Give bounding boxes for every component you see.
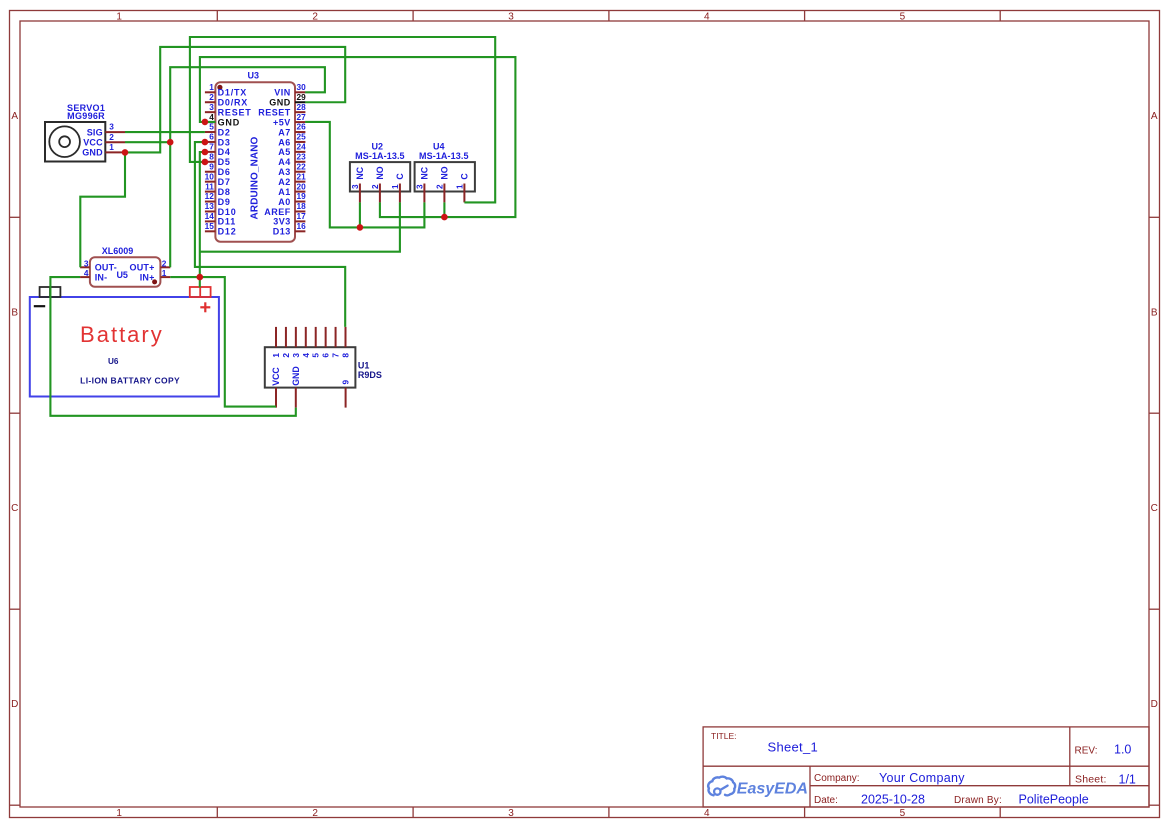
svg-text:6: 6 (209, 132, 214, 142)
U5 pin 1 IN+ (140, 268, 171, 282)
relay U2 MS-1A-13.5 (350, 141, 410, 191)
wire to U2 C (200, 202, 400, 251)
U1 pin VCC (271, 367, 281, 408)
svg-text:A: A (1151, 111, 1158, 122)
U3 pin 24 A5 (278, 142, 306, 158)
SERVO1 pin 1 GND (82, 142, 125, 158)
svg-text:10: 10 (205, 171, 215, 181)
svg-text:1: 1 (109, 142, 114, 152)
svg-text:1: 1 (271, 353, 281, 358)
svg-text:2: 2 (371, 184, 380, 189)
svg-text:B: B (1151, 307, 1158, 318)
svg-text:4: 4 (301, 353, 311, 358)
svg-text:13: 13 (205, 201, 215, 211)
U5 origin dot (152, 279, 157, 284)
svg-text:5: 5 (900, 808, 906, 819)
U3 pin 7 D4 (205, 142, 231, 158)
U3 pin 10 D7 (205, 171, 231, 187)
svg-text:1: 1 (456, 184, 465, 189)
U3 pin 25 A6 (278, 132, 306, 148)
svg-text:Your Company: Your Company (879, 771, 965, 785)
svg-text:2: 2 (281, 353, 291, 358)
junction node (125,152.4) (122, 149, 129, 156)
svg-text:D10: D10 (218, 207, 237, 217)
battery positive terminal (190, 287, 211, 312)
junction node (170.2,142.2) (167, 139, 174, 146)
svg-text:A6: A6 (278, 137, 291, 147)
U3 pin 27 +5V (273, 112, 306, 128)
U1 pin 4 (301, 327, 311, 358)
svg-text:26: 26 (297, 122, 307, 132)
svg-text:1/1: 1/1 (1119, 772, 1136, 786)
U3 pin 4 GND (205, 112, 240, 128)
svg-text:1: 1 (116, 808, 122, 819)
U3 pin 9 D6 (205, 161, 231, 177)
junction node (204.9,142.05) (202, 139, 209, 146)
SERVO1 pin 2 VCC (83, 132, 125, 148)
svg-text:D11: D11 (218, 217, 236, 227)
svg-text:9: 9 (209, 161, 214, 171)
svg-text:Drawn By:: Drawn By: (954, 795, 1002, 806)
svg-text:A4: A4 (278, 157, 291, 167)
U3 pin 5 D2 (205, 122, 231, 138)
U3 pin 22 A3 (278, 161, 306, 177)
svg-text:14: 14 (205, 211, 215, 221)
svg-text:C: C (11, 503, 18, 514)
svg-text:D6: D6 (218, 167, 231, 177)
U1 pin 9 (341, 380, 351, 408)
svg-text:D: D (11, 699, 18, 710)
U3 pin 16 D13 (273, 221, 306, 237)
U3 pin 12 D9 (205, 191, 231, 207)
svg-text:24: 24 (297, 142, 307, 152)
receiver U1 R9DS (265, 347, 382, 387)
svg-text:Battary: Battary (80, 322, 164, 347)
svg-text:25: 25 (297, 132, 307, 142)
svg-text:3: 3 (351, 184, 360, 189)
svg-text:3: 3 (84, 258, 89, 268)
svg-text:NO: NO (375, 166, 385, 179)
svg-text:GND: GND (291, 366, 301, 386)
svg-text:3: 3 (508, 808, 514, 819)
U1 pin GND (291, 366, 301, 407)
svg-text:D5: D5 (218, 157, 231, 167)
svg-text:8: 8 (209, 152, 214, 162)
wire OUT+ / VIN net (170, 67, 325, 267)
svg-text:19: 19 (297, 191, 307, 201)
svg-text:2: 2 (436, 184, 445, 189)
junction node (204.9,152.0) (202, 149, 209, 156)
svg-text:7: 7 (331, 353, 341, 358)
svg-text:A: A (11, 111, 18, 122)
U3 pin 14 D11 (205, 211, 236, 227)
svg-text:VCC: VCC (83, 138, 103, 148)
svg-text:Company:: Company: (814, 773, 860, 784)
wire branch U4 NO (443, 202, 445, 217)
junction node (359.9,227.4) (357, 224, 364, 231)
svg-text:D3: D3 (218, 137, 231, 147)
U4 pin 2 NO (436, 166, 450, 202)
svg-text:C: C (1151, 503, 1158, 514)
svg-text:5: 5 (900, 11, 906, 22)
U5 pin 2 OUT+ (130, 258, 171, 272)
svg-text:C: C (460, 173, 470, 180)
svg-text:U3: U3 (248, 71, 260, 81)
svg-text:12: 12 (205, 191, 215, 201)
svg-text:D13: D13 (273, 227, 291, 237)
svg-text:GND: GND (269, 98, 291, 108)
svg-text:MS-1A-13.5: MS-1A-13.5 (355, 151, 405, 161)
svg-text:3: 3 (508, 11, 514, 22)
wire servo VCC tap (125, 141, 170, 143)
U3 pin 1 D1/TX (205, 82, 247, 98)
U3 pin 18 AREF (264, 201, 306, 217)
svg-text:D0/RX: D0/RX (218, 98, 249, 108)
svg-text:VCC: VCC (271, 367, 281, 386)
U1 pin 8 (341, 327, 351, 358)
boost converter U5 XL6009 (90, 246, 160, 287)
svg-text:R9DS: R9DS (358, 370, 382, 380)
svg-text:2: 2 (109, 132, 114, 142)
U4 pin 1 C (456, 173, 470, 203)
U3 pin 11 D8 (205, 181, 231, 197)
svg-text:GND: GND (218, 117, 240, 127)
wire GND4 to relay NO net (200, 57, 516, 217)
wire battery+ stub (199, 277, 201, 287)
svg-text:4: 4 (704, 11, 710, 22)
svg-text:EasyEDA: EasyEDA (737, 781, 808, 798)
svg-text:MS-1A-13.5: MS-1A-13.5 (419, 151, 469, 161)
svg-text:D: D (1151, 699, 1158, 710)
svg-text:OUT+: OUT+ (130, 263, 155, 273)
wire servo SIG to D2 (125, 131, 205, 133)
wire D4 vertical (200, 152, 205, 277)
svg-text:3V3: 3V3 (273, 217, 291, 227)
svg-text:11: 11 (205, 181, 214, 191)
SERVO1 pin 3 SIG (87, 122, 125, 138)
svg-text:U4: U4 (433, 141, 445, 151)
junction node (199.8,277.1) (197, 274, 204, 281)
wire D3 to U1 pin8 (195, 142, 345, 327)
svg-text:A3: A3 (278, 167, 291, 177)
U1 pin 5 (311, 327, 321, 358)
U5 pin 3 OUT- (80, 258, 117, 272)
U3 pin 23 A4 (278, 152, 306, 168)
U1 pin 3 (291, 327, 301, 358)
wire +5V to relay NC net (305, 122, 424, 227)
U3 pin 2 D0/RX (205, 92, 248, 108)
svg-text:15: 15 (205, 221, 215, 231)
svg-text:1: 1 (116, 11, 122, 22)
wire branch U2 NC (359, 202, 361, 227)
U2 pin 2 NO (371, 166, 385, 202)
U1 pin 6 (321, 327, 331, 358)
U3 pin 21 A2 (278, 171, 306, 187)
svg-text:B: B (11, 307, 18, 318)
U3 pin 17 3V3 (273, 211, 306, 227)
svg-text:2: 2 (209, 92, 214, 102)
U2 pin 1 C (391, 173, 405, 203)
svg-text:2: 2 (312, 808, 318, 819)
Arduino Nano U3 (215, 71, 295, 242)
battery U6 LI-ION (30, 297, 219, 397)
svg-text:NC: NC (355, 166, 365, 179)
svg-text:4: 4 (704, 808, 710, 819)
svg-text:3: 3 (291, 353, 301, 358)
svg-text:20: 20 (297, 181, 307, 191)
svg-text:1: 1 (162, 268, 167, 278)
wire D5 to U4 C (190, 37, 495, 202)
svg-text:22: 22 (297, 161, 307, 171)
U1 pin 1 (271, 327, 281, 358)
svg-text:2: 2 (162, 258, 167, 268)
svg-text:28: 28 (297, 102, 307, 112)
svg-text:C: C (395, 173, 405, 180)
svg-text:A7: A7 (278, 127, 291, 137)
U3 pin 20 A1 (278, 181, 306, 197)
svg-text:3: 3 (416, 184, 425, 189)
svg-text:A1: A1 (278, 187, 291, 197)
svg-text:RESET: RESET (258, 107, 291, 117)
junction node (204.9,161.95) (202, 159, 209, 166)
svg-text:OUT-: OUT- (95, 263, 117, 273)
relay U4 MS-1A-13.5 (415, 141, 475, 191)
svg-text:7: 7 (209, 142, 214, 152)
U2 pin 3 NC (351, 166, 365, 202)
svg-text:U5: U5 (116, 270, 128, 280)
EasyEDA logo (708, 777, 808, 798)
svg-text:5: 5 (311, 353, 321, 358)
svg-text:NO: NO (440, 166, 450, 179)
svg-text:2025-10-28: 2025-10-28 (861, 792, 925, 806)
svg-text:4: 4 (84, 268, 89, 278)
svg-text:8: 8 (341, 353, 351, 358)
svg-text:1: 1 (209, 82, 214, 92)
svg-text:29: 29 (297, 92, 307, 102)
svg-text:LI-ION BATTARY COPY: LI-ION BATTARY COPY (80, 376, 180, 386)
svg-text:21: 21 (297, 171, 307, 181)
svg-text:MG996R: MG996R (67, 111, 105, 121)
U3 pin 29 GND (269, 92, 306, 108)
svg-text:D7: D7 (218, 177, 231, 187)
U1 pin 7 (331, 327, 341, 358)
title block (703, 727, 1149, 807)
junction node (444.4,217.1) (441, 214, 448, 221)
svg-text:TITLE:: TITLE: (711, 731, 737, 741)
svg-text:D12: D12 (218, 227, 237, 237)
svg-text:U6: U6 (108, 357, 119, 366)
svg-text:2: 2 (312, 11, 318, 22)
U3 pin 15 D12 (205, 221, 237, 237)
svg-text:3: 3 (209, 102, 214, 112)
svg-text:RESET: RESET (218, 107, 252, 117)
svg-text:18: 18 (297, 201, 307, 211)
svg-text:30: 30 (297, 82, 307, 92)
svg-text:NC: NC (420, 166, 430, 179)
U3 pin 8 D5 (205, 152, 231, 168)
svg-text:VIN: VIN (274, 88, 291, 98)
U5 pin 4 IN- (80, 268, 107, 282)
svg-text:U2: U2 (372, 141, 384, 151)
svg-text:6: 6 (321, 353, 331, 358)
svg-text:3: 3 (109, 122, 114, 132)
svg-text:Date:: Date: (814, 795, 838, 806)
svg-text:D4: D4 (218, 147, 231, 157)
battery negative terminal (34, 287, 61, 306)
svg-text:A5: A5 (278, 147, 291, 157)
svg-text:A0: A0 (278, 197, 291, 207)
svg-text:+5V: +5V (273, 117, 291, 127)
svg-text:PolitePeople: PolitePeople (1019, 793, 1089, 807)
svg-text:5: 5 (209, 122, 214, 132)
wire servo GND to Arduino GND29 (125, 47, 345, 152)
U1 pin 2 (281, 327, 291, 358)
servo SERVO1 MG996R (45, 103, 105, 161)
svg-text:IN-: IN- (95, 272, 108, 282)
svg-text:1.0: 1.0 (1114, 742, 1131, 756)
svg-text:D1/TX: D1/TX (218, 88, 248, 98)
svg-text:D9: D9 (218, 197, 231, 207)
svg-text:D8: D8 (218, 187, 231, 197)
svg-text:REV:: REV: (1075, 745, 1098, 756)
svg-text:A2: A2 (278, 177, 291, 187)
svg-text:XL6009: XL6009 (102, 246, 134, 256)
svg-text:27: 27 (297, 112, 307, 122)
svg-text:23: 23 (297, 152, 307, 162)
wire servo GND to OUT- (80, 152, 125, 267)
svg-text:4: 4 (209, 112, 214, 122)
svg-text:GND: GND (82, 148, 103, 158)
U3 pin 6 D3 (205, 132, 231, 148)
U4 pin 3 NC (416, 166, 430, 202)
svg-text:16: 16 (297, 221, 307, 231)
U3 pin 28 RESET (258, 102, 306, 118)
svg-text:Sheet:: Sheet: (1075, 774, 1107, 786)
svg-text:17: 17 (297, 211, 307, 221)
wire battery- to IN- (50, 277, 295, 416)
U3 pin 19 A0 (278, 191, 306, 207)
svg-text:D2: D2 (218, 127, 231, 137)
wire battery+ to IN+ and U1 VCC (170, 277, 276, 407)
svg-text:Sheet_1: Sheet_1 (768, 740, 819, 755)
svg-text:IN+: IN+ (140, 272, 155, 282)
U3 pin 3 RESET (205, 102, 252, 118)
svg-text:ARDUINO_NANO: ARDUINO_NANO (249, 136, 260, 219)
svg-text:SIG: SIG (87, 127, 103, 137)
svg-text:1: 1 (391, 184, 400, 189)
svg-text:9: 9 (341, 380, 351, 385)
U3 pin 30 VIN (274, 82, 306, 98)
U3 pin 13 D10 (205, 201, 237, 217)
U3 origin dot (217, 85, 222, 90)
U3 pin 26 A7 (278, 122, 306, 138)
junction node (204.9,121.9) (202, 119, 209, 126)
svg-text:AREF: AREF (264, 207, 291, 217)
